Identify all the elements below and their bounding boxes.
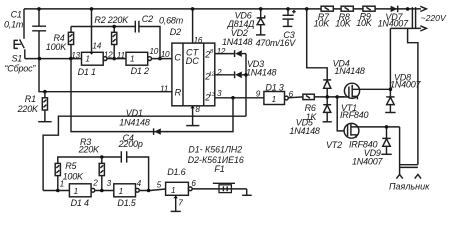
svg-text:1K: 1K [306,112,318,122]
svg-text:1: 1 [85,55,89,64]
wire pin16 [192,9,194,43]
svg-text:1N4007: 1N4007 [390,79,422,89]
svg-text:10K: 10K [314,19,331,29]
pin 11 [117,51,125,60]
svg-text:1N4007: 1N4007 [352,157,384,167]
label VD2 [231,28,248,38]
svg-text:13: 13 [209,92,216,98]
contact arrow left [396,174,402,178]
wire D1.5 out [139,189,165,191]
inverter D1.3 [264,92,288,105]
svg-text:1N4148: 1N4148 [119,118,150,128]
label 220K R3 [78,145,100,155]
svg-text:F1: F1 [214,164,224,174]
svg-text:5: 5 [157,180,162,189]
svg-text:12: 12 [217,47,226,56]
svg-text:100K: 100K [46,42,67,52]
svg-text:D1 1: D1 1 [78,67,96,77]
svg-text:D1- К561ЛН2: D1- К561ЛН2 [188,144,242,154]
label R2 220K [94,15,129,25]
resistor R4 [68,27,73,59]
wire diode-or vertical [245,54,247,117]
svg-text:C: C [174,52,181,63]
svg-text:13: 13 [71,51,80,60]
svg-text:1N4148: 1N4148 [222,37,253,47]
svg-text:4: 4 [137,179,142,188]
svg-text:R5: R5 [65,161,77,171]
label R6 [305,103,316,113]
label 100K [46,42,67,52]
pin 9 [256,90,261,99]
resistor R7 [321,6,333,11]
pin 5 [157,180,162,189]
ground C3 [283,25,293,27]
node R5 bottom [56,189,60,193]
zener VD6 [257,9,265,35]
pin 13 [71,51,80,60]
svg-text:1N4148: 1N4148 [246,67,277,77]
label 100K R5 [63,172,84,182]
label 10K R9 [356,18,373,28]
svg-text:D1 4: D1 4 [71,198,89,208]
label F1 [214,164,224,174]
svg-text:0,68m: 0,68m [159,15,184,25]
wire VDD drop pin14 [91,9,93,52]
contact arrow right [415,174,421,178]
wire heater left [399,127,401,174]
svg-text:R1: R1 [25,94,36,104]
label IRF840 VT1 [340,110,369,120]
power caret D2 pin8 [190,106,195,109]
pin 3 out [217,89,222,98]
svg-text:D1.5: D1.5 [117,198,136,208]
diode VD8 [386,97,394,112]
svg-text:D1.6: D1.6 [167,167,185,177]
svg-text:11: 11 [160,84,168,93]
inverter D1.6 [166,182,193,195]
pin 12 out [217,47,226,56]
ground D2 pin8 [186,125,199,127]
diode VD3 [235,71,246,78]
label D1 4 [71,198,89,208]
arrow mains live [420,6,426,11]
label 1N4007 VD8 [390,79,422,89]
label C3 [283,30,294,40]
power caret D1.6 pin7 [173,196,178,199]
wire pin12 output [215,53,235,55]
svg-text:1: 1 [130,55,134,64]
label R1 [25,94,36,104]
label VD9 [364,148,381,158]
wire reset net [39,59,172,92]
node C2-out2 [158,57,162,61]
label IRF840 VT2 [349,139,378,149]
transistor VT2 [344,123,400,138]
pin 2 out [216,68,222,77]
svg-text:2: 2 [216,68,222,77]
pin 12 [104,51,113,60]
svg-text:D1 2: D1 2 [131,66,149,76]
wire left drop to switch [23,9,25,39]
svg-text:1: 1 [272,95,276,104]
svg-text:2: 2 [92,178,98,187]
wire pin7 [175,195,177,211]
resistor R2 [112,27,117,59]
label 1N4007 VD9 [352,157,384,167]
svg-text:3: 3 [107,179,112,188]
wire VD4 feed [307,9,328,80]
mains connector X1 [412,7,415,28]
wire oscillator RC top [71,27,160,59]
inverter D1.1 [82,52,108,65]
node R4-pin13 [69,57,73,61]
pin 1 [60,180,64,189]
label ~220V [421,13,447,23]
label C4 [123,133,134,143]
svg-text:R2 220K: R2 220K [94,15,129,25]
node VT1 drain [389,88,393,92]
pin 6 [191,179,196,188]
diode VD9 [382,127,390,154]
label D1.5 [117,198,136,208]
label VT2 [326,140,342,150]
switch S1 [14,39,25,58]
svg-text:12: 12 [209,71,216,77]
capacitor C2 [135,21,139,33]
label Сброс [5,64,37,74]
wire VD1 branch [71,59,233,132]
svg-text:Паяльник: Паяльник [389,182,430,192]
node rail-C3 [286,7,290,11]
resistor R6 [303,94,345,99]
fuse F1 [213,183,235,192]
arrow mains neutral [420,26,426,31]
node R2-out1 [112,57,116,61]
svg-text:1N4148: 1N4148 [289,126,320,136]
label C1 [11,10,22,20]
label 1K [306,112,318,122]
heater connector [400,165,418,168]
svg-text:VT2: VT2 [326,140,342,150]
label 1N4148 VD1 [119,118,150,128]
diode VD5 [323,97,331,122]
svg-text:1: 1 [60,180,64,189]
inverter D1.5 [114,184,140,197]
ground F1 [242,194,252,196]
label 220K R1 [17,104,39,114]
pin 11 reset [160,84,168,93]
diode VD2 [235,50,246,57]
svg-text:Д814Д: Д814Д [227,19,256,29]
label VD6 [235,11,252,21]
wire top supply rail [24,8,421,10]
label VT1 [341,103,357,113]
label C2 [142,14,153,24]
pin 16 [194,36,203,45]
pin 14 [92,41,101,50]
svg-text:1N4148: 1N4148 [334,66,365,76]
wire D1.6 out [192,188,247,190]
node rail-pin14 [90,7,94,11]
label 1N4007 VD7 [378,19,410,29]
pin 10 counter [161,50,170,59]
svg-text:VD1: VD1 [126,108,143,118]
svg-text:1N4007: 1N4007 [378,19,410,29]
svg-text:10K: 10K [335,19,352,29]
wire pin2 output [215,74,235,76]
label D1 2 [131,66,149,76]
label VD5 [296,117,314,127]
resistor R8 [341,6,353,11]
pin 3 [107,179,112,188]
capacitor C3 [283,9,296,26]
node S1-C1 [38,57,42,61]
label D2 [170,27,181,37]
inverter D1.2 [126,52,152,65]
svg-text:220K: 220K [78,145,100,155]
svg-text:2200p: 2200p [118,139,143,149]
svg-text:6: 6 [191,179,196,188]
power caret D1.1 pin14 [89,52,94,55]
svg-text:1: 1 [171,186,175,195]
node R3 bottom [100,189,104,193]
wire neutral jog [408,28,418,164]
svg-text:7: 7 [178,199,183,208]
svg-text:10: 10 [161,50,170,59]
svg-text:~220V: ~220V [421,13,447,23]
node R1 tap [43,90,47,94]
pin 4 [137,179,142,188]
node rail-VD4 [305,7,309,11]
diode VD1 [154,128,161,135]
svg-text:“Сброс”: “Сброс” [5,64,37,74]
node C4 branch [147,189,151,193]
pin 6 D1.3 [289,90,294,99]
resistor R9 [363,6,375,11]
svg-text:470m/16V: 470m/16V [256,38,297,48]
wire pin8 [192,106,194,125]
label D1 type [188,144,242,154]
svg-text:3: 3 [217,89,222,98]
label VD1 [126,108,143,118]
ground D1.6 [171,210,181,212]
label 1N4148 VD2 [222,37,253,47]
ground VD6 [256,34,265,36]
label VD8 [394,73,411,83]
label R9 [360,11,371,21]
label D1 1 [78,67,96,77]
label 2200p [118,139,143,149]
label 10K R7 [314,19,331,29]
label R3 [80,137,91,147]
label R5 [65,161,77,171]
wire F1 out [246,189,248,195]
inverter D1.4 [69,184,94,197]
ground VD9 [381,153,391,155]
label 470m/16V [256,38,297,48]
svg-text:S1: S1 [12,54,23,64]
node rail-C1 [37,7,41,11]
svg-text:D2: D2 [170,27,181,37]
pin 7 [178,199,183,208]
wire delay feedback [43,116,246,190]
svg-text:100K: 100K [63,172,84,182]
label VD3 [247,59,264,69]
wire VT1 drain riser [389,28,391,97]
label VD7 [385,12,403,22]
label 0,68m [159,15,184,25]
label D1.6 [167,167,185,177]
diode VD7 [391,6,398,13]
svg-text:12: 12 [104,51,113,60]
ground VD8 [385,112,395,114]
label 1N4148 VD5 [289,126,320,136]
node rail-VD6 [259,7,263,11]
svg-text:C1: C1 [11,10,22,20]
wire osc2 top [58,157,149,191]
wire VT2 gate [337,97,347,131]
pin 8 [195,105,200,114]
svg-text:1: 1 [119,187,123,196]
svg-text:10: 10 [149,47,158,56]
label D1 3 [265,83,283,93]
counter D2 [172,43,216,106]
wire pin13 net horizontal [25,58,82,60]
svg-text:C2: C2 [142,14,153,24]
label Паяльник [389,182,430,192]
svg-text:IRF840: IRF840 [340,110,369,120]
wire pin3 output to D1.3 [215,97,264,99]
ground VD5 [323,121,332,123]
node rail-pin16 [191,7,195,11]
wire D1.3 out [288,96,303,99]
label R8 [339,12,350,22]
svg-text:14: 14 [92,41,101,50]
node VD4 VD5 tap [325,95,329,99]
svg-text:1: 1 [74,187,78,196]
resistor R3 [99,157,104,191]
node mains top [406,7,410,11]
ground R1 [38,121,51,123]
wire D1.4 out [95,190,114,192]
node VT2 gate tap [335,95,339,99]
svg-text:R: R [175,87,182,98]
pin 10 gate [149,47,158,56]
svg-text:0,1m: 0,1m [4,19,24,29]
label R4 [54,33,65,43]
svg-text:11: 11 [117,51,125,60]
label R7 [318,12,330,22]
node VD3 join [244,73,248,77]
node R2-osc [112,25,116,29]
svg-text:DC: DC [186,56,200,66]
transistor VT1 [337,83,390,99]
label Д814Д [227,19,256,29]
svg-text:8: 8 [195,105,200,114]
label VD4 [333,59,350,69]
svg-text:16: 16 [194,36,203,45]
capacitor C1 [32,9,46,59]
node VD1 riser [231,96,235,100]
svg-text:D1 3: D1 3 [265,83,283,93]
pin 2 [92,178,98,187]
label D2 type [188,155,244,165]
label 10K R8 [335,19,352,29]
label 1N4148 VD3 [246,67,277,77]
wire D1.2 out to D2 [152,58,172,60]
node R3 top [100,155,104,159]
label 0,1m [4,19,24,29]
capacitor C4 [121,151,126,162]
node VD9 tap [385,125,389,129]
wire mains neutral [390,27,421,29]
svg-text:220K: 220K [17,104,39,114]
svg-text:10K: 10K [356,18,373,28]
label S1 [12,54,23,64]
resistor R5 [55,163,60,190]
wire gate row [43,190,69,192]
resistor R1 [42,92,47,122]
label 1N4148 VD4 [334,66,365,76]
wire D1.1 out [107,58,126,60]
svg-text:9: 9 [256,90,261,99]
diode VD4 [323,80,331,97]
